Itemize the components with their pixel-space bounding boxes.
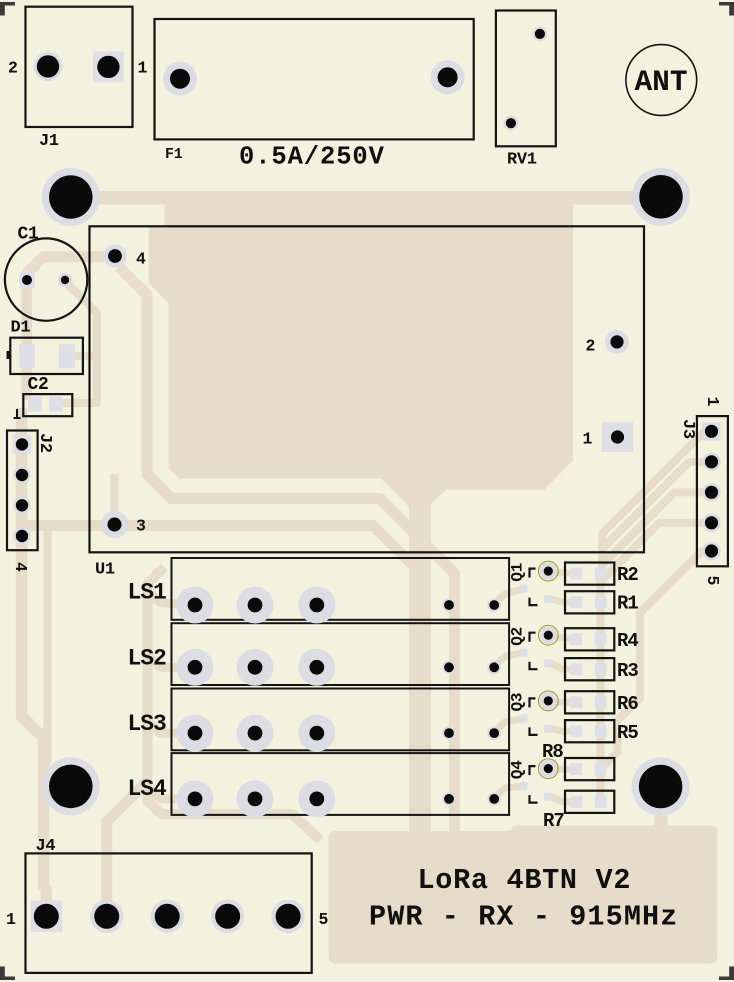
board corner mark top-left — [0, 2, 15, 16]
Q3 pad 3 (emitter) — [544, 725, 552, 733]
J2 pad 1 — [13, 435, 31, 453]
J4 pad 3 — [151, 900, 184, 933]
resistor R1 outline — [565, 591, 614, 613]
wire C1+ to U1 pad4 — [28, 257, 113, 282]
capacitor C2 outline — [23, 394, 72, 416]
U1 pin 2 number — [586, 337, 596, 356]
J3 pad 1 — [702, 422, 720, 440]
via stub from bottom-right mounting hole to zone — [655, 812, 668, 828]
wire Q1 emitter to R1 — [548, 598, 576, 602]
copper zone under U1 with wide feed down to bottom zone — [149, 202, 573, 835]
capacitor C1 outline — [5, 238, 87, 320]
svg-text:Q3: Q3 — [509, 693, 527, 712]
speaker LS1 label — [128, 580, 167, 606]
wire Q2 to R4 — [550, 636, 576, 639]
fuse F1 outline — [155, 19, 474, 139]
J4 pad 4 — [211, 900, 244, 933]
connector J3 outline — [697, 416, 728, 566]
net PWR top bus wire between mounting holes — [70, 191, 661, 205]
resistor R2 label — [617, 564, 638, 586]
resistor R4 label — [617, 630, 638, 652]
IC U1 label — [95, 561, 115, 580]
J3 pad 3 — [702, 483, 721, 502]
svg-text:LS4: LS4 — [128, 776, 168, 802]
speaker LS2 label — [128, 645, 167, 671]
wire Q4 emitter to R7 — [548, 796, 576, 802]
wire J3 pin3 to R4 — [602, 492, 712, 565]
J1 pad 2 — [33, 52, 62, 81]
resistor R1 label — [617, 593, 638, 615]
resistor R5 label — [617, 722, 638, 744]
resistor R5 outline — [565, 720, 614, 742]
svg-text:LS3: LS3 — [128, 711, 167, 737]
wire LS chain to bottom zone — [148, 792, 321, 840]
wire C2/J2 bus down to J4 pin1 — [22, 408, 47, 908]
wire Q3 emitter to R5 — [548, 728, 576, 731]
varistor RV1 outline — [496, 11, 556, 147]
svg-text:2: 2 — [586, 337, 596, 356]
svg-text:1: 1 — [6, 910, 16, 929]
R2 pad 1 — [570, 568, 582, 580]
wire branch to D1 cathode — [68, 352, 97, 360]
LS1 pad 1 — [177, 587, 214, 624]
transistor Q3 outline marks — [530, 691, 559, 735]
resistor R6 label — [617, 693, 638, 715]
wire Q1 to R2 — [550, 572, 576, 573]
Q1 pad 2 (base) — [521, 585, 528, 593]
svg-text:J3: J3 — [678, 419, 697, 439]
wire C1+ / D1 anode / C2 chain — [21, 284, 32, 400]
R6 pad 2 — [595, 696, 607, 708]
bottom copper zone with board title — [329, 825, 718, 963]
R3 pad 2 — [595, 663, 607, 675]
antenna ANT circle — [626, 45, 697, 116]
LS3 pad 1 — [177, 715, 214, 752]
R8 pad 2 — [595, 763, 607, 775]
resistor R8 label — [542, 741, 563, 763]
Q1 pad 3 (emitter) — [544, 595, 552, 603]
svg-text:J4: J4 — [36, 837, 56, 856]
LS3 pad 4 — [442, 726, 456, 740]
J1 pin 2 number — [8, 59, 18, 78]
svg-text:U1: U1 — [95, 561, 115, 580]
J3 pad 2 — [702, 453, 721, 472]
wire U1 pad4 return run — [119, 267, 455, 833]
wire LS4 to Q4 base — [494, 786, 524, 798]
LS4 pad 5 — [487, 792, 501, 806]
R8 pad 1 — [570, 763, 582, 775]
wire LS chain vertical — [148, 567, 165, 795]
capacitor C2 label — [28, 375, 49, 395]
Q1 pad 1 (collector) — [539, 562, 557, 580]
svg-text:LS1: LS1 — [128, 580, 167, 606]
F1 pad 1 — [163, 62, 197, 96]
Q3 pad 1 (collector) — [539, 692, 557, 710]
connector J2 outline — [7, 431, 38, 551]
transistor Q2 outline marks — [530, 625, 559, 669]
R4 pad 2 — [595, 633, 607, 645]
J1 pad 1 — [93, 52, 124, 83]
wire Q3 to R6 — [550, 698, 576, 705]
resistor R7 outline — [565, 791, 614, 813]
transistor Q4 outline marks — [530, 759, 559, 803]
svg-text:PWR - RX - 915MHz: PWR - RX - 915MHz — [369, 901, 678, 934]
speaker LS4 outline — [172, 753, 510, 815]
fuse value label 0.5A/250V — [239, 143, 385, 172]
D1 pad 2 (cathode) — [59, 344, 75, 368]
speaker LS3 label — [128, 711, 167, 737]
svg-text:2: 2 — [8, 59, 18, 78]
svg-text:C1: C1 — [18, 225, 40, 245]
J4 pad 5 — [271, 900, 304, 933]
J2 pin 4 number — [11, 562, 30, 572]
J4 pin 5 number — [319, 910, 329, 929]
svg-text:1: 1 — [703, 397, 722, 407]
wire branch to LS1 pad1 — [148, 590, 189, 605]
mounting hole top-left — [42, 168, 100, 226]
R6 pad 1 — [570, 696, 582, 708]
LS4 pad 4 — [442, 792, 456, 806]
speaker LS3 outline — [172, 689, 510, 751]
wire to J4 pin2 — [107, 781, 148, 908]
transistor Q2 label — [509, 627, 527, 646]
LS2 pad 2 — [237, 649, 274, 686]
R3 pad 1 — [570, 663, 582, 675]
wire LS2 to Q2 base — [494, 653, 524, 667]
svg-text:J1: J1 — [39, 132, 59, 151]
R1 pad 2 — [595, 596, 607, 608]
wire J3 pin1 to R2 — [602, 431, 712, 575]
J3 pin 1 number — [703, 397, 722, 407]
capacitor C2 pin1 mark — [14, 409, 21, 418]
resistor R3 label — [617, 660, 638, 682]
R1 pad 1 — [570, 596, 582, 608]
Q2 pad 1 (collector) — [539, 626, 557, 644]
J2 pad 2 — [13, 466, 31, 484]
Q2 pad 2 (base) — [521, 649, 528, 657]
speaker LS1 outline — [172, 558, 510, 620]
transistor Q3 label — [509, 693, 527, 712]
transistor Q1 outline marks — [530, 561, 559, 605]
svg-text:Q2: Q2 — [509, 627, 527, 646]
LS1 pad 3 — [298, 587, 335, 624]
diode D1 cathode tick — [7, 351, 11, 359]
R5 pad 2 — [595, 725, 607, 737]
wire U1 pad3 net — [22, 526, 426, 613]
wire branch to LS3 pad1 — [148, 721, 189, 733]
LS3 pad 2 — [237, 715, 274, 752]
wire LS3 to Q3 base — [494, 718, 524, 732]
J3 pad 5 — [702, 542, 721, 561]
svg-text:Q1: Q1 — [509, 563, 527, 582]
svg-text:R2: R2 — [617, 564, 638, 586]
board title line 2 — [369, 901, 678, 934]
RV1 pad 2 — [503, 116, 518, 131]
svg-text:R3: R3 — [617, 660, 638, 682]
capacitor C1 label — [18, 225, 40, 245]
svg-text:RV1: RV1 — [507, 151, 537, 170]
R7 pad 2 — [595, 796, 607, 808]
connector J2 label — [35, 433, 54, 453]
diode D1 label — [11, 319, 31, 338]
J3 pin 5 number — [703, 576, 722, 586]
J1 pin 1 number — [138, 59, 148, 78]
LS1 pad 2 — [237, 587, 274, 624]
wire U1 pad3 to zone stub — [111, 474, 119, 520]
R4 pad 1 — [570, 633, 582, 645]
U1 pad 4 — [103, 244, 127, 268]
svg-text:5: 5 — [319, 910, 329, 929]
varistor RV1 label — [507, 151, 537, 170]
Q4 pad 3 (emitter) — [544, 793, 552, 801]
resistor R8 outline — [565, 758, 614, 780]
wire C1- to C2 pad2 — [62, 281, 97, 403]
connector J1 outline — [26, 7, 133, 127]
svg-text:1: 1 — [583, 430, 593, 449]
svg-text:1: 1 — [138, 59, 148, 78]
svg-text:R5: R5 — [617, 722, 638, 744]
svg-text:4: 4 — [136, 250, 146, 269]
LS4 pad 2 — [237, 780, 274, 817]
speaker LS4 label — [128, 776, 168, 802]
wire J3 pin2 to R1 — [602, 462, 712, 575]
diode D1 outline — [10, 338, 83, 374]
U1 pad 3 — [101, 511, 128, 538]
LS2 pad 5 — [487, 660, 501, 674]
Q3 pad 2 (base) — [521, 714, 528, 722]
resistor R3 outline — [565, 658, 614, 680]
board corner mark bottom-left — [0, 967, 15, 981]
C1 pad + — [19, 272, 35, 288]
svg-text:J2: J2 — [35, 433, 54, 453]
mounting hole bottom-right — [632, 758, 690, 816]
svg-text:C2: C2 — [28, 375, 49, 395]
LS4 pad 3 — [298, 780, 335, 817]
resistor R4 outline — [565, 628, 614, 650]
transistor Q1 label — [509, 563, 527, 582]
LS2 pad 4 — [442, 660, 456, 674]
svg-text:R4: R4 — [617, 630, 638, 652]
LS3 pad 5 — [487, 726, 501, 740]
R5 pad 1 — [570, 725, 582, 737]
J4 pin 1 number — [6, 910, 16, 929]
RV1 pad 1 — [532, 26, 547, 41]
svg-text:R1: R1 — [617, 593, 638, 615]
wire Q2 emitter to R3 — [548, 662, 576, 669]
connector J3 label — [678, 419, 697, 439]
wire Q4 to R8 — [550, 766, 576, 774]
R7 pad 1 — [570, 796, 582, 808]
Q4 pad 2 (base) — [521, 782, 528, 790]
svg-text:LS2: LS2 — [128, 645, 167, 671]
svg-text:ANT: ANT — [634, 65, 687, 99]
U1 pin 4 number — [136, 250, 146, 269]
resistor R6 outline — [565, 691, 614, 713]
J4 pad 1 — [31, 901, 63, 933]
R2 pad 2 — [595, 568, 607, 580]
board title line 1 — [418, 864, 632, 897]
resistor R7 label — [543, 810, 564, 832]
LS2 pad 3 — [298, 649, 335, 686]
svg-text:D1: D1 — [11, 319, 31, 338]
J4 pad 2 — [90, 900, 123, 933]
C1 pad - — [58, 273, 73, 288]
resistor R2 outline — [565, 563, 614, 585]
board corner mark bottom-right — [719, 967, 734, 981]
mounting hole bottom-left — [42, 757, 100, 815]
wire resistor chain R2-R7 — [597, 572, 605, 801]
connector J4 outline — [26, 853, 312, 973]
C2 pad 1 — [28, 397, 42, 412]
antenna ANT label — [634, 65, 687, 99]
connector J1 label — [39, 132, 59, 151]
LS3 pad 3 — [298, 715, 335, 752]
LS1 pad 4 — [442, 598, 456, 612]
wire pad3 net down to J4 pin1 area — [44, 527, 52, 763]
wire J3 pin5 to R8 — [601, 551, 712, 769]
U1 pin 1 number — [583, 430, 593, 449]
svg-text:5: 5 — [703, 576, 722, 586]
svg-text:F1: F1 — [165, 146, 183, 163]
svg-text:LoRa 4BTN V2: LoRa 4BTN V2 — [418, 864, 632, 897]
F1 pad 2 — [431, 60, 465, 94]
board corner mark top-right — [719, 2, 734, 16]
Q2 pad 3 (emitter) — [544, 659, 552, 667]
U1 pad 2 — [605, 330, 629, 354]
svg-text:R6: R6 — [617, 693, 638, 715]
svg-text:4: 4 — [11, 562, 30, 572]
wire branch to LS2 pad1 — [148, 655, 189, 667]
wire branch to LS4 pad1 — [148, 787, 189, 799]
LS1 pad 5 — [487, 598, 501, 612]
speaker LS2 outline — [172, 623, 510, 685]
J2 pad 3 — [13, 497, 31, 515]
U1 pad 1 — [602, 422, 633, 452]
wire J3 pin4 to R3 — [602, 523, 712, 580]
J3 pad 4 — [702, 514, 721, 533]
connector J4 label — [36, 837, 56, 856]
svg-text:3: 3 — [136, 517, 146, 536]
LS4 pad 1 — [177, 780, 214, 817]
svg-text:Q4: Q4 — [509, 760, 527, 779]
D1 pad 1 (anode) — [19, 344, 35, 368]
mounting hole top-right — [632, 168, 690, 226]
U1 pin 3 number — [136, 517, 146, 536]
LS2 pad 1 — [177, 649, 214, 686]
fuse F1 label — [165, 146, 183, 163]
transistor Q4 label — [509, 760, 527, 779]
J2 pad 4 — [13, 527, 31, 545]
svg-text:R7: R7 — [543, 810, 564, 832]
Q4 pad 1 (collector) — [539, 760, 557, 778]
wire LS1 to Q1 base — [494, 589, 524, 604]
svg-text:0.5A/250V: 0.5A/250V — [239, 143, 385, 172]
C2 pad 2 — [49, 397, 63, 412]
svg-text:R8: R8 — [542, 741, 563, 763]
IC U1 outline — [90, 226, 645, 552]
